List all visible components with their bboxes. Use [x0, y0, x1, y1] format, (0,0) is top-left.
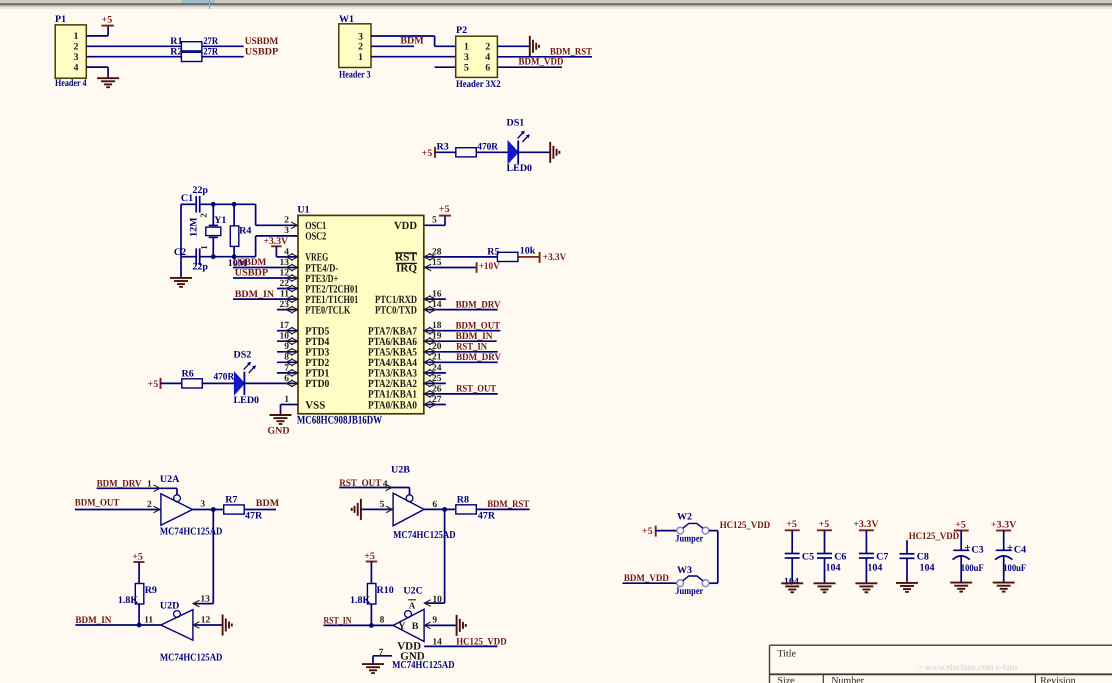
capacitor C6 [814, 519, 847, 592]
net label USBDP [245, 47, 278, 58]
svg-text:BDM_DRV: BDM_DRV [456, 352, 502, 363]
svg-text:1: 1 [74, 31, 79, 42]
svg-text:Revision: Revision [1040, 675, 1076, 683]
svg-text:+5: +5 [132, 552, 143, 563]
ic U1 pin numbers [280, 216, 442, 405]
ground at P2 pin2 [530, 36, 539, 57]
svg-text:HC125_VDD: HC125_VDD [909, 531, 960, 542]
net label HC125_VDD at C8 [909, 531, 960, 542]
svg-text:R4: R4 [239, 226, 251, 237]
svg-text:RST_OUT: RST_OUT [456, 384, 496, 395]
wire R10 to RST_IN node [370, 604, 372, 625]
value 12M of Y1 [188, 217, 199, 237]
pin 10 number U2C [432, 595, 442, 605]
svg-text:+3.3V: +3.3V [853, 519, 879, 530]
ground at U2B pin 5 [352, 499, 361, 520]
svg-text:1: 1 [284, 395, 289, 405]
wire oscillator top rail [181, 203, 256, 205]
svg-text:C3: C3 [971, 545, 983, 556]
wire U2C pin 7 to ground [373, 656, 392, 664]
wire U2D enable pin 13 [193, 600, 213, 607]
svg-text:R2: R2 [170, 46, 182, 57]
wire RST_OUT to U2B enable [339, 484, 409, 495]
svg-text:Header 3X2: Header 3X2 [456, 79, 501, 90]
ground GND at VSS [267, 415, 291, 436]
net label BDM_OUT at U2A [75, 498, 120, 509]
pin 8 number U2C [380, 615, 385, 625]
power +5 at VDD [439, 204, 451, 215]
wire P1 pin4 to ground [86, 67, 108, 78]
resistor R7 [224, 495, 263, 522]
power +5 at P1 [102, 14, 114, 25]
crystal Y1 [199, 204, 227, 256]
wire R6 to LED DS2 [203, 382, 235, 384]
pin 2 OSC1 arrow [291, 222, 298, 229]
ic U1 body MC68HC908JB16DW [298, 215, 424, 413]
svg-text:100uF: 100uF [961, 563, 984, 574]
ground at U2D pin 12 [223, 615, 232, 636]
value LED0 of DS1 [507, 163, 533, 174]
svg-text:15: 15 [432, 258, 442, 268]
pin 1 number U2A [147, 480, 152, 490]
svg-text:27R: 27R [203, 46, 219, 57]
buffer U2D designator [160, 601, 179, 612]
wire R7 to BDM [244, 509, 276, 511]
buffer U2C part number [392, 660, 455, 671]
svg-text:10k: 10k [520, 246, 536, 257]
power +5 at R6 [148, 378, 182, 390]
buffer U2A part number [160, 527, 223, 538]
svg-text:1.8K: 1.8K [118, 595, 138, 606]
wire BDM_IN to U2D output [75, 624, 160, 626]
wire R5 to +3.3V [518, 256, 539, 258]
resistor R10 [350, 584, 394, 606]
pin 22 stub [277, 285, 298, 292]
svg-text:R7: R7 [225, 495, 237, 506]
svg-text:~ www.elecfans.com e-fans: ~ www.elecfans.com e-fans [918, 662, 1018, 672]
title block Revision text [1040, 675, 1076, 683]
wire U2C input pin 9 to ground [424, 622, 457, 629]
power +10V at IRQ [477, 261, 501, 273]
svg-text:U2B: U2B [391, 464, 410, 475]
pin 16 stub [424, 296, 446, 303]
svg-text:U2C: U2C [403, 586, 422, 597]
wire BDM_VDD to W3 [623, 582, 677, 584]
wire BDM_IN to pin 11 [233, 296, 298, 303]
capacitor C8 [896, 540, 935, 592]
wire RST_IN to U2C output [324, 624, 394, 626]
svg-text:+5: +5 [786, 519, 797, 530]
capacitor C7 [853, 519, 888, 592]
svg-text:BDM: BDM [400, 36, 424, 47]
resistor R4 [230, 204, 251, 256]
connector P2 label [456, 79, 501, 90]
svg-text:4: 4 [485, 52, 490, 63]
svg-text:1: 1 [199, 245, 209, 250]
svg-text:LED0: LED0 [507, 163, 533, 174]
pin 5 number U2B [380, 500, 385, 510]
power +5 at W2 [642, 526, 656, 537]
svg-text:DS1: DS1 [507, 117, 525, 128]
svg-text:BDM_VDD: BDM_VDD [519, 57, 564, 68]
svg-text:DS2: DS2 [234, 350, 252, 361]
pin GND name U2C [400, 651, 425, 663]
svg-text:2: 2 [485, 42, 490, 53]
svg-text:C1: C1 [181, 193, 193, 204]
net label BDM_DRV at pin 14 [456, 299, 502, 310]
buffer U2C designator [403, 586, 422, 597]
svg-text:22p: 22p [192, 185, 208, 196]
power +5 at R10 [364, 551, 377, 583]
svg-text:PTC0/TXD: PTC0/TXD [375, 304, 417, 316]
capacitor C5 [781, 519, 814, 592]
svg-text:R9: R9 [145, 585, 157, 596]
svg-text:+5: +5 [422, 148, 433, 159]
svg-text:Y1: Y1 [214, 215, 226, 226]
resistor R3 [437, 141, 499, 157]
svg-text:1: 1 [358, 52, 363, 63]
svg-text:+3.3V: +3.3V [264, 236, 289, 247]
net label RST_OUT at pin 26 [456, 384, 496, 395]
wire P2 pin5 stub [435, 66, 456, 68]
net label BDM at R7 [256, 498, 280, 509]
net label BDM_VDD at W3 [624, 573, 669, 584]
svg-text:6: 6 [485, 63, 490, 74]
wire U2A output to R7 [193, 509, 224, 511]
wire pin 18 BDM_OUT [424, 327, 501, 334]
pin 4 VREG wire [276, 254, 298, 261]
ic U1 designator [297, 205, 309, 216]
jumper W3 [675, 565, 709, 597]
title block frame [770, 645, 1112, 683]
wire U2C enable pin 10 [424, 600, 444, 607]
wire osc top to OSC1 [256, 204, 298, 225]
svg-text:W2: W2 [677, 511, 692, 522]
svg-text:Title: Title [777, 648, 796, 659]
net label HC125_VDD at U2C [456, 636, 507, 647]
svg-text:MC74HC125AD: MC74HC125AD [393, 530, 456, 541]
net label BDM_IN at pin 19 [456, 331, 494, 342]
buffer U2C triangle [393, 609, 424, 641]
wire W2 to HC125_VDD drop [709, 531, 718, 584]
svg-text:Y: Y [398, 621, 406, 632]
buffer U2C bubble [405, 611, 412, 618]
resistor R5 [487, 246, 536, 262]
svg-text:6: 6 [432, 500, 437, 510]
svg-text:BDM_IN: BDM_IN [235, 289, 275, 300]
wire W1 pin1 to P2 pin3 [371, 56, 456, 58]
pin 13 number U2D [200, 595, 210, 605]
ic U1 part number [297, 413, 383, 426]
wire U2D input pin 12 to ground [193, 622, 223, 629]
wire pin 20 RST_IN [424, 348, 498, 355]
svg-text:BDM_IN: BDM_IN [456, 331, 494, 342]
buffer U2C enable name A [408, 600, 416, 611]
svg-text:4: 4 [74, 62, 79, 73]
capacitor C2 [174, 247, 209, 272]
svg-text:2: 2 [147, 500, 152, 510]
net label BDM_IN at U1 [235, 289, 275, 300]
svg-text:470R: 470R [477, 141, 498, 152]
wire R3 to LED DS1 [476, 151, 508, 153]
capacitor C1 [181, 185, 209, 213]
connector P2 designator [456, 25, 467, 36]
svg-text:MC74HC125AD: MC74HC125AD [392, 660, 455, 671]
wire +5 to W2 [656, 530, 677, 532]
buffer U2A bubble [174, 495, 181, 502]
connector W1 label [339, 69, 371, 80]
wire R1 to USBDM [202, 45, 244, 47]
svg-text:104: 104 [867, 563, 882, 574]
svg-text:27R: 27R [203, 36, 219, 47]
svg-text:+5: +5 [819, 519, 830, 530]
connector P1 designator [55, 14, 66, 25]
svg-text:Jumper: Jumper [675, 586, 703, 597]
svg-text:Header 3: Header 3 [339, 69, 371, 80]
buffer U2D part number [160, 653, 223, 664]
wire U2C pin 14 HC125_VDD [424, 645, 497, 647]
svg-text:MC68HC908JB16DW: MC68HC908JB16DW [297, 413, 383, 426]
net label USBDM at U1 [233, 257, 267, 268]
svg-text:PTE0/TCLK: PTE0/TCLK [305, 304, 350, 316]
svg-text:8: 8 [380, 615, 385, 625]
wire W1 pin3 bend to P2 pin1 [371, 36, 456, 46]
svg-text:C5: C5 [802, 551, 814, 562]
wire pin 14 BDM_DRV [424, 306, 498, 313]
pin 4 number U2B [383, 479, 388, 489]
svg-text:+5: +5 [642, 526, 653, 537]
svg-text:USBDP: USBDP [235, 267, 269, 278]
wire oscillator left drop [180, 204, 182, 256]
svg-text:W3: W3 [677, 565, 692, 576]
svg-text:104: 104 [826, 563, 841, 574]
pin VDD name U2C [397, 641, 421, 653]
title block Number text [831, 675, 864, 683]
svg-text:+: + [964, 542, 970, 554]
power +5 at R9 [132, 552, 144, 584]
svg-text:47R: 47R [245, 510, 263, 521]
svg-text:5: 5 [380, 500, 385, 510]
svg-text:C4: C4 [1014, 545, 1026, 556]
svg-text:+3.3V: +3.3V [543, 252, 567, 263]
net label BDM_RST [550, 47, 592, 58]
top scrollbar strip [0, 0, 1112, 9]
capacitor C4 [991, 519, 1026, 591]
svg-text:USBDM: USBDM [233, 257, 267, 268]
svg-text:5: 5 [464, 63, 469, 74]
value 10M of R4 [228, 258, 248, 269]
buffer U2B triangle [393, 493, 424, 526]
net label BDM_RST at R8 [487, 499, 529, 510]
connector P2 body Header 3X2 [456, 36, 498, 77]
wire U2A output to U2D enable [212, 510, 214, 604]
capacitor C3 [950, 519, 984, 591]
ground at U2C pin 9 [457, 615, 466, 636]
svg-text:VSS: VSS [305, 399, 325, 411]
svg-text:R5: R5 [487, 246, 499, 257]
jumper W2 [675, 511, 709, 544]
wire BDM_OUT to U2A input [75, 506, 161, 513]
wire P2 pin6 BDM_VDD [497, 66, 562, 68]
svg-text:R8: R8 [457, 495, 469, 506]
wire P1 pin2 to R1 [86, 45, 181, 47]
power +3.3V at R5 [540, 252, 567, 263]
svg-text:VDD: VDD [394, 220, 417, 232]
wire P1 pin1 to +5 [86, 26, 108, 36]
designator DS2 [234, 350, 252, 361]
resistor R8 [456, 495, 496, 522]
svg-text:BDM_RST: BDM_RST [487, 499, 529, 510]
wire R8 to BDM_RST [477, 508, 530, 510]
net label RST_OUT at U2B [339, 478, 381, 489]
svg-text:2: 2 [74, 42, 79, 53]
ground at DS1 [550, 142, 559, 163]
net label BDM_VDD [519, 57, 564, 68]
svg-text:BDM_OUT: BDM_OUT [75, 498, 120, 509]
wire ground to U2B input [361, 506, 393, 513]
svg-text:+: + [1007, 542, 1013, 554]
svg-text:HC125_VDD: HC125_VDD [720, 520, 771, 531]
svg-text:9: 9 [432, 616, 437, 626]
svg-text:1: 1 [464, 42, 469, 53]
connector P1 body Header 4 [55, 25, 86, 78]
ground at P1 [97, 78, 119, 87]
svg-text:Jumper: Jumper [675, 533, 703, 544]
buffer U2B designator [391, 464, 410, 475]
wire P1 pin3 to R2 [86, 56, 181, 58]
node U2A output junction [211, 507, 216, 512]
svg-text:3: 3 [358, 31, 363, 42]
connector W1 body Header 3 [339, 24, 371, 68]
svg-text:3: 3 [464, 52, 469, 63]
node BDM_IN junction [137, 623, 142, 628]
svg-text:+5: +5 [148, 379, 159, 390]
connector W1 designator [339, 14, 354, 25]
svg-text:Header 4: Header 4 [55, 78, 87, 89]
designator DS1 [507, 117, 525, 128]
svg-text:Size: Size [777, 675, 795, 683]
wire oscillator bottom rail [181, 256, 256, 258]
buffer U2B part number [393, 530, 456, 541]
pin 9 number U2C [432, 616, 437, 626]
svg-text:+5: +5 [364, 551, 375, 562]
svg-text:3: 3 [284, 226, 289, 236]
svg-text:+5: +5 [955, 519, 966, 530]
node osc top Y1 junction [211, 202, 216, 207]
svg-text:2: 2 [199, 213, 209, 218]
wire P2 pin2 to ground [497, 45, 529, 47]
svg-text:470R: 470R [214, 372, 235, 383]
wire VSS pin 1 to ground [281, 405, 299, 416]
svg-text:A: A [409, 600, 416, 610]
resistor R9 [118, 584, 157, 606]
pin 23 stub [277, 306, 298, 313]
pin 9 stub [277, 348, 298, 355]
svg-text:USBDM: USBDM [245, 36, 279, 47]
svg-text:3: 3 [200, 500, 205, 510]
watermark [918, 662, 1018, 672]
svg-text:IRQ: IRQ [396, 262, 417, 274]
power +3.3V at VREG [264, 236, 289, 257]
wire R2 to USBDP [202, 56, 244, 58]
svg-text:MC74HC125AD: MC74HC125AD [160, 653, 223, 664]
node RST_IN junction [369, 623, 374, 628]
node osc top R4 junction [232, 202, 237, 207]
svg-text:12: 12 [201, 615, 211, 625]
net label BDM_DRV at U2A [97, 478, 143, 489]
svg-text:1.8K: 1.8K [350, 595, 371, 606]
ground at U2C pin 7 [362, 664, 384, 673]
resistor R1 [170, 36, 219, 51]
node U2B output junction [442, 507, 447, 512]
wire VDD pin 5 to +5 [424, 216, 445, 226]
svg-text:C7: C7 [876, 551, 888, 562]
net label USBDM [245, 36, 279, 47]
svg-text:Number: Number [831, 675, 864, 683]
buffer U2C gate letters [398, 621, 418, 632]
svg-text:C8: C8 [917, 551, 929, 562]
pin 2 number U2A [147, 500, 152, 510]
wire USBDM to pin 13 [233, 264, 298, 271]
pin 3 number U2A [200, 500, 205, 510]
wire LED DS1 to ground [518, 151, 550, 153]
pin 12 number U2D [201, 615, 211, 625]
power +5 at R3 [422, 147, 456, 159]
svg-text:PTD0: PTD0 [305, 378, 329, 390]
svg-text:100uF: 100uF [1003, 563, 1026, 574]
svg-text:P2: P2 [456, 25, 467, 36]
wire pin 28 RST to R5 [424, 254, 497, 261]
svg-text:47R: 47R [478, 511, 496, 522]
svg-text:+3.3V: +3.3V [991, 519, 1017, 530]
svg-text:BDM: BDM [256, 498, 280, 509]
wire pin 26 RST_OUT [424, 391, 498, 398]
svg-text:B: B [412, 621, 419, 632]
node osc bottom R4 junction [232, 254, 237, 259]
pin 24 stub [424, 370, 446, 377]
svg-text:OSC2: OSC2 [305, 231, 326, 243]
net label BDM_DRV at pin 21 [456, 352, 502, 363]
net label RST_IN at U2C [324, 615, 353, 626]
svg-text:LED0: LED0 [234, 395, 260, 406]
wire U2B output to U2C enable [444, 509, 446, 603]
svg-text:+10V: +10V [479, 261, 501, 272]
pin 6 number U2B [432, 500, 437, 510]
resistor R6 [182, 368, 235, 388]
svg-text:C2: C2 [174, 247, 186, 258]
value LED0 of DS2 [234, 395, 260, 406]
svg-text:R1: R1 [170, 36, 182, 47]
wire osc bottom to OSC2 [256, 236, 298, 257]
svg-text:+5: +5 [102, 14, 113, 25]
svg-text:BDM_DRV: BDM_DRV [456, 299, 502, 310]
pin 11 number U2D [144, 615, 153, 625]
net label RST_IN at pin 20 [456, 342, 488, 353]
pin 7 number U2C [379, 648, 384, 658]
pin 27 stub [424, 401, 446, 408]
title block Size text [777, 675, 795, 683]
net label HC125_VDD at W2 [720, 520, 771, 531]
svg-text:HC125_VDD: HC125_VDD [456, 636, 507, 647]
wire USBDP to pin 12 [233, 275, 298, 282]
resistor R2 [170, 46, 219, 61]
svg-text:U2A: U2A [160, 474, 180, 485]
net label BDM_OUT at pin 18 [456, 320, 501, 331]
pin 14 number U2C [432, 638, 442, 648]
svg-text:BDM_OUT: BDM_OUT [456, 320, 501, 331]
node osc bottom Y1 junction [211, 254, 216, 259]
net label USBDP at U1 [235, 267, 269, 278]
